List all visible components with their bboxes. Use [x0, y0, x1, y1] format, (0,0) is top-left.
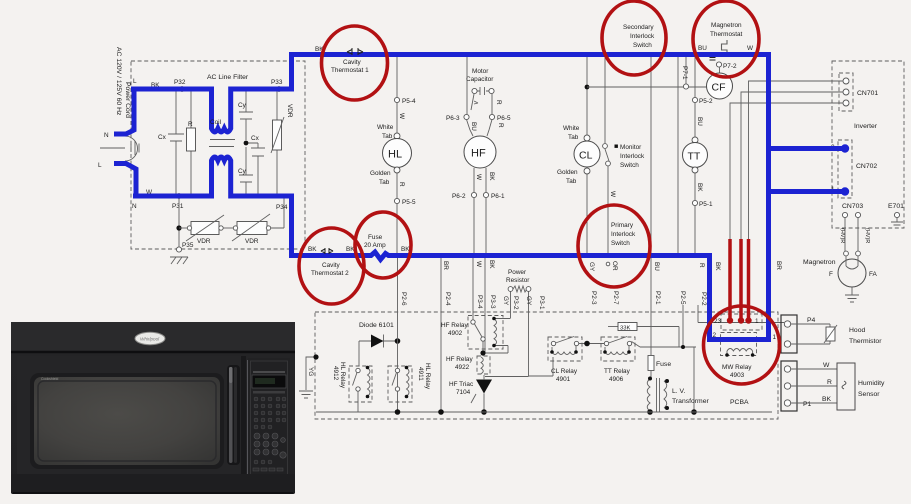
svg-text:P3-4: P3-4: [476, 295, 483, 309]
svg-text:CF: CF: [712, 82, 726, 94]
svg-text:Power: Power: [508, 269, 527, 276]
svg-text:AC Line Filter: AC Line Filter: [207, 74, 249, 81]
svg-text:P7-1: P7-1: [681, 66, 688, 80]
terminal P5-1: [692, 200, 697, 205]
svg-text:Cavity: Cavity: [343, 59, 362, 66]
svg-text:BU: BU: [698, 45, 707, 52]
svg-text:W: W: [609, 191, 616, 198]
wire blue right vertical: [766, 52, 771, 340]
svg-text:P5-2: P5-2: [699, 98, 713, 105]
svg-text:P35: P35: [182, 242, 194, 249]
svg-text:Humidity: Humidity: [858, 380, 885, 387]
wire P2-2 to P4: [698, 305, 784, 323]
wire blue filter top line: [131, 55, 292, 133]
svg-text:P1: P1: [803, 401, 812, 408]
svg-text:N: N: [132, 203, 137, 210]
wire P2-6 column: [397, 258, 399, 412]
svg-text:Transformer: Transformer: [672, 398, 709, 405]
highlight ellipse magnetron thermostat: [693, 1, 759, 77]
svg-text:P2-1: P2-1: [654, 291, 661, 305]
svg-text:N: N: [104, 132, 109, 139]
terminal P7-2: [716, 62, 721, 67]
svg-text:Cy: Cy: [238, 168, 247, 175]
microwave photo: [11, 322, 295, 494]
svg-text:W: W: [475, 174, 482, 181]
terminal P33: [277, 87, 282, 92]
junction GY node: [579, 343, 606, 345]
svg-text:Switch: Switch: [620, 162, 639, 169]
svg-text:Motor: Motor: [472, 68, 489, 75]
svg-text:P2-4: P2-4: [444, 292, 451, 306]
svg-text:L. V.: L. V.: [672, 388, 685, 395]
svg-text:Coil: Coil: [210, 119, 221, 126]
svg-text:4911: 4911: [417, 367, 424, 381]
lamp HF: [464, 136, 496, 168]
svg-text:Tab: Tab: [568, 134, 579, 141]
wire label OR below: [606, 262, 610, 266]
highlight ellipse cavity thermostat 1: [322, 26, 388, 100]
svg-text:P2-6: P2-6: [400, 292, 407, 306]
svg-text:CL: CL: [579, 150, 593, 162]
svg-text:BR: BR: [442, 261, 449, 270]
svg-text:OR: OR: [611, 261, 618, 271]
node red contact 3: [745, 317, 751, 323]
svg-text:BK: BK: [822, 396, 832, 403]
svg-text:Resistor: Resistor: [506, 277, 530, 284]
node blue CN702 pin1: [841, 187, 849, 195]
wire TT column: [694, 57, 696, 253]
varistor VDR left: [179, 215, 224, 241]
svg-text:BK: BK: [308, 246, 317, 253]
svg-text:E701: E701: [888, 203, 904, 210]
resistor R: [187, 91, 196, 194]
svg-text:Thermistor: Thermistor: [849, 338, 882, 345]
capacitor Cx: [168, 91, 184, 194]
svg-text:FA: FA: [869, 271, 878, 278]
svg-text:P6-2: P6-2: [452, 193, 466, 200]
svg-text:CN701: CN701: [857, 90, 878, 97]
svg-text:P7-2: P7-2: [723, 63, 737, 70]
varistor VDR right: [223, 198, 284, 241]
fuse PCB: [648, 258, 654, 378]
svg-text:HL: HL: [388, 149, 402, 161]
svg-text:YG: YG: [307, 367, 314, 376]
connector CN702: [838, 140, 852, 198]
wire BR column: [440, 258, 442, 412]
svg-text:BK: BK: [696, 183, 703, 192]
svg-text:Primary: Primary: [611, 222, 634, 229]
capacitor Cx2: [246, 143, 265, 194]
svg-text:R: R: [497, 123, 504, 128]
svg-text:Diode 6101: Diode 6101: [359, 322, 394, 329]
wire blue bottom bus left: [289, 253, 369, 258]
motor TT: [692, 137, 698, 143]
connector P4: [781, 315, 797, 353]
PCB bottom rail: [316, 411, 772, 413]
svg-text:(HV)R: (HV)R: [839, 228, 845, 243]
relay TT 4906: [601, 337, 635, 361]
svg-text:Capacitor: Capacitor: [466, 76, 494, 83]
node red contact 1: [727, 317, 733, 323]
svg-text:BU: BU: [470, 122, 477, 131]
fuse 20A blue symbol: [368, 252, 391, 260]
svg-text:P3-2: P3-2: [512, 296, 519, 310]
svg-text:W: W: [823, 362, 830, 369]
svg-text:R: R: [698, 263, 705, 268]
wires CN703 to magnetron: [845, 217, 858, 252]
varistor VDR vertical: [271, 91, 284, 194]
svg-text:VDR: VDR: [245, 238, 259, 245]
power cord header: [115, 47, 131, 118]
wire blue top bus: [289, 52, 769, 57]
svg-text:Monitor: Monitor: [620, 144, 642, 151]
svg-text:Cavity: Cavity: [322, 262, 341, 269]
svg-text:PCBA: PCBA: [730, 399, 749, 406]
resistor 33K: [608, 305, 696, 412]
svg-text:4901: 4901: [556, 376, 571, 383]
svg-text:HF: HF: [471, 148, 486, 160]
relay MW 4903 contact box: [721, 314, 762, 330]
svg-text:F: F: [829, 271, 833, 278]
lamp HL: [383, 139, 412, 168]
node blue CN702 pin2: [841, 144, 849, 152]
svg-text:CN702: CN702: [856, 163, 877, 170]
terminal P5-5: [394, 198, 399, 203]
svg-text:Hood: Hood: [849, 327, 865, 334]
svg-text:White: White: [377, 124, 394, 131]
svg-text:Power Cord: Power Cord: [124, 82, 131, 118]
svg-text:P6-1: P6-1: [491, 193, 505, 200]
svg-text:BK: BK: [488, 172, 495, 181]
wire CF feed horizontal: [587, 86, 707, 88]
humidity sensor: [791, 369, 837, 403]
svg-text:P5-1: P5-1: [699, 201, 713, 208]
terminal P7-1: [685, 57, 687, 84]
svg-text:4922: 4922: [455, 364, 470, 371]
svg-text:Sensor: Sensor: [858, 391, 880, 398]
thermostat 1 contact mark: [347, 48, 363, 55]
svg-text:L: L: [133, 78, 137, 85]
svg-text:W: W: [398, 113, 405, 120]
svg-text:P34: P34: [276, 204, 288, 211]
svg-text:HL Relay: HL Relay: [339, 362, 346, 389]
wire P2-5 column: [677, 57, 679, 253]
svg-text:Thermostat 2: Thermostat 2: [311, 270, 349, 277]
svg-text:Inverter: Inverter: [854, 123, 878, 130]
svg-text:R: R: [495, 100, 502, 105]
svg-text:4902: 4902: [448, 330, 463, 337]
highlight ellipse primary interlock: [578, 205, 650, 287]
svg-text:R: R: [398, 182, 405, 187]
svg-text:P32: P32: [174, 79, 186, 86]
svg-text:Tab: Tab: [566, 178, 577, 185]
svg-text:BU: BU: [696, 117, 703, 126]
svg-text:BK: BK: [488, 260, 495, 269]
svg-text:P6-5: P6-5: [497, 115, 511, 122]
wire blue MW relay drop: [707, 253, 771, 340]
svg-text:P2-7: P2-7: [612, 291, 619, 305]
wire BK column P3-3: [484, 258, 486, 352]
svg-text:4906: 4906: [609, 376, 624, 383]
svg-text:4903: 4903: [730, 372, 745, 379]
thermostat 2 contact mark: [321, 248, 333, 254]
inverter dashed box: [832, 61, 904, 228]
terminal P6-3: [464, 114, 469, 119]
svg-text:HL Relay: HL Relay: [424, 363, 431, 390]
fan motor CF: [719, 67, 721, 73]
junction diode node: [395, 338, 401, 344]
svg-text:W: W: [475, 261, 482, 268]
highlight ellipse fuse: [355, 212, 411, 278]
wires CN701 to magnetron feed: [730, 81, 843, 240]
terminal P5-2: [692, 97, 697, 102]
relay MW 4903 coil: [721, 333, 757, 356]
svg-text:Interlock: Interlock: [611, 231, 636, 238]
svg-text:GY: GY: [502, 296, 509, 306]
svg-text:P5-5: P5-5: [402, 199, 416, 206]
highlight ellipse cavity thermostat 2: [299, 228, 364, 304]
svg-text:P3-1: P3-1: [538, 296, 545, 310]
svg-text:Magnetron: Magnetron: [711, 22, 742, 29]
svg-text:1: 1: [773, 334, 777, 341]
hood thermistor: [791, 324, 837, 344]
svg-text:Thermostat: Thermostat: [710, 31, 743, 38]
wire blue filter bottom line: [133, 157, 292, 256]
svg-text:P3-3: P3-3: [489, 295, 496, 309]
wire blue CN702 branch 1: [766, 189, 844, 194]
wire BU column: [650, 57, 652, 253]
terminal P6-2: [471, 192, 476, 197]
terminal P31: [177, 194, 182, 199]
wire red MW feed 3: [747, 239, 751, 318]
svg-text:Interlock: Interlock: [620, 153, 645, 160]
relay HL 4911: [388, 366, 412, 402]
svg-text:Cy: Cy: [238, 102, 247, 109]
svg-text:1: 1: [755, 318, 759, 325]
coil core: [209, 140, 235, 147]
lamp CL: [574, 141, 600, 167]
terminal P6-1: [483, 192, 488, 197]
svg-text:Interlock: Interlock: [630, 33, 655, 40]
connector P1: [781, 361, 797, 411]
plug (power cord): [100, 136, 139, 161]
AC line filter dashed box: [131, 61, 305, 249]
svg-text:Secondary: Secondary: [623, 24, 654, 31]
svg-text:BU: BU: [653, 262, 660, 271]
ground E701: [891, 218, 903, 229]
wire CL column: [586, 57, 588, 253]
svg-text:P5-4: P5-4: [402, 98, 416, 105]
svg-text:P6-3: P6-3: [446, 115, 460, 122]
node red contact 2: [738, 317, 744, 323]
junction node mid filter: [244, 141, 249, 146]
terminal P5-4: [394, 97, 399, 102]
wire blue power cord L: [114, 164, 136, 197]
svg-text:MW Relay: MW Relay: [722, 364, 752, 371]
svg-text:P2-5: P2-5: [679, 291, 686, 305]
wire red MW feed 2: [739, 239, 743, 318]
capacitor Cy upper: [239, 91, 253, 140]
svg-text:Cx: Cx: [158, 134, 167, 141]
svg-text:CL Relay: CL Relay: [551, 368, 578, 375]
wire W column P3-4: [472, 258, 474, 320]
junction node VDR row: [176, 225, 181, 230]
relay CL 4901: [548, 337, 582, 361]
svg-text:P4: P4: [807, 317, 816, 324]
connector CN701: [839, 73, 853, 111]
svg-text:Cookshield: Cookshield: [41, 377, 58, 381]
svg-text:Cx: Cx: [251, 135, 260, 142]
svg-text:R: R: [827, 379, 832, 386]
capacitor Cy lower: [239, 147, 253, 194]
highlight ellipse MW relay: [704, 306, 780, 384]
svg-text:Tab: Tab: [379, 179, 390, 186]
svg-text:Fuse: Fuse: [368, 234, 383, 241]
svg-text:HF Triac: HF Triac: [449, 381, 474, 388]
svg-text:Fuse: Fuse: [656, 361, 671, 368]
wire blue CN702 branch 2: [766, 146, 844, 151]
svg-text:Magnetron: Magnetron: [803, 259, 836, 266]
svg-text:VDR: VDR: [286, 104, 293, 118]
svg-text:BK: BK: [714, 262, 721, 271]
thermostat contact mark: [710, 58, 716, 61]
svg-text:VDR: VDR: [197, 238, 211, 245]
svg-text:AC 120V / 125V 60 Hz: AC 120V / 125V 60 Hz: [115, 47, 122, 116]
svg-text:TT: TT: [688, 151, 701, 163]
svg-text:Whirlpool: Whirlpool: [140, 337, 160, 342]
svg-text:White: White: [563, 125, 580, 132]
svg-text:HF Relay: HF Relay: [441, 322, 468, 329]
highlight ellipse secondary interlock: [602, 1, 666, 75]
svg-text:33K: 33K: [620, 326, 630, 332]
svg-text:W: W: [747, 45, 754, 52]
transformer LV: [647, 378, 667, 412]
svg-text:Switch: Switch: [633, 42, 652, 49]
wire HL column: [396, 57, 398, 253]
wire blue power cord N: [114, 89, 134, 134]
svg-text:Thermostat 1: Thermostat 1: [331, 67, 369, 74]
PCB dashed box: [315, 312, 778, 419]
wire red MW feed 1: [728, 239, 732, 318]
svg-text:P2-3: P2-3: [590, 291, 597, 305]
monitor interlock switch: [605, 57, 609, 253]
svg-text:Golden: Golden: [557, 169, 578, 176]
svg-text:Golden: Golden: [370, 170, 391, 177]
svg-text:4912: 4912: [332, 366, 339, 381]
svg-text:20 Amp: 20 Amp: [364, 242, 386, 249]
terminal P32: [180, 87, 185, 92]
svg-text:7104: 7104: [456, 389, 471, 396]
svg-text:GY: GY: [588, 262, 595, 272]
terminal P6-5: [489, 114, 494, 119]
svg-text:Switch: Switch: [611, 240, 630, 247]
svg-text:BR: BR: [775, 261, 782, 270]
svg-text:R: R: [188, 121, 193, 128]
ground symbol P35: [170, 198, 188, 264]
wire blue bottom bus right: [390, 253, 712, 258]
svg-text:HF Relay: HF Relay: [446, 356, 473, 363]
svg-text:P33: P33: [271, 79, 283, 86]
magnetron thermostat symbol: [722, 40, 728, 53]
ground YG: [299, 357, 316, 398]
svg-text:P31: P31: [172, 203, 184, 210]
svg-text:P2-2: P2-2: [700, 292, 707, 306]
svg-text:L: L: [98, 162, 102, 169]
junction node CL feed: [585, 85, 590, 90]
svg-text:CN703: CN703: [842, 203, 863, 210]
svg-text:Tab: Tab: [382, 133, 393, 140]
svg-text:(HV)R: (HV)R: [864, 228, 870, 243]
wires into HF lamp: [467, 120, 493, 254]
svg-text:TT Relay: TT Relay: [604, 368, 631, 375]
svg-text:GY: GY: [525, 296, 532, 306]
